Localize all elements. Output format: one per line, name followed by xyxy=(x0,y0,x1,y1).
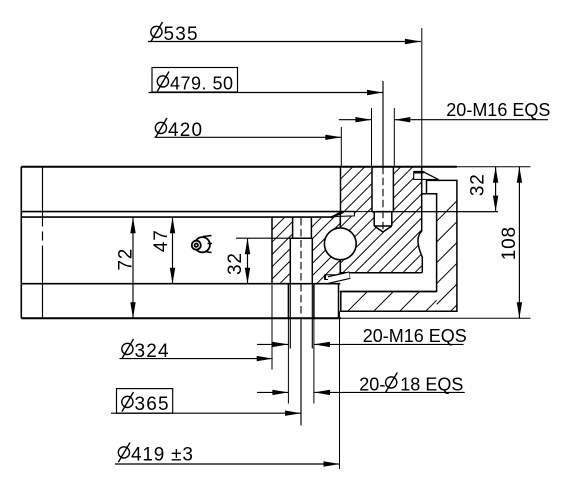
svg-text:479. 50: 479. 50 xyxy=(170,74,234,94)
ball xyxy=(324,228,356,260)
dimension 20-M16 EQS bottom xyxy=(257,326,467,347)
seal groove top right (white cut) xyxy=(414,168,424,180)
svg-text:32: 32 xyxy=(468,173,489,196)
extension lines right xyxy=(341,167,531,318)
outer support ring outline xyxy=(341,180,457,311)
svg-text:535: 535 xyxy=(164,24,199,45)
dimension Ø365 boxed xyxy=(111,389,301,416)
upper mounting plate outline xyxy=(21,167,457,318)
hatch: support column xyxy=(437,201,457,311)
hatch: support flange xyxy=(341,292,437,312)
extension lines top xyxy=(341,28,422,167)
support step line extension xyxy=(422,193,427,195)
centerline of outer ring bolt hole xyxy=(382,81,384,167)
svg-text:47: 47 xyxy=(151,229,172,252)
seal top left xyxy=(331,212,354,218)
centerline of inner ring bolt hole xyxy=(300,218,302,318)
break-out wave pocket on outer ring OD xyxy=(418,231,423,257)
lower plate bolt hole Ø18 xyxy=(288,284,338,349)
svg-text:32: 32 xyxy=(225,252,246,275)
dimension Ø479.50 boxed xyxy=(149,68,384,96)
raceway joint line at ball xyxy=(339,212,341,273)
thread step line inner ring hole xyxy=(290,237,312,239)
dimension Ø324 xyxy=(119,339,272,362)
svg-text:20-M16 EQS: 20-M16 EQS xyxy=(446,100,550,120)
outer ring OD line over seal xyxy=(421,167,423,180)
svg-text:72: 72 xyxy=(116,248,137,271)
dimension 20-Ø18 EQS xyxy=(257,373,465,396)
dimension 32 right xyxy=(468,167,499,212)
svg-text:365: 365 xyxy=(135,394,170,415)
inner ring outline xyxy=(272,217,312,283)
outer ring outline xyxy=(340,167,437,292)
bearing axis centerline xyxy=(42,167,44,227)
dimension 32 left xyxy=(225,238,250,284)
dimension 108 right xyxy=(499,167,522,318)
svg-text:108: 108 xyxy=(499,226,520,260)
dimension Ø535 xyxy=(148,22,421,45)
svg-text:324: 324 xyxy=(135,341,170,362)
svg-text:20-M16 EQS: 20-M16 EQS xyxy=(363,326,467,346)
dimension 20-M16 EQS top xyxy=(339,100,551,122)
dimension 72 xyxy=(116,217,137,318)
svg-text:18 EQS: 18 EQS xyxy=(400,375,463,395)
plug position marker glyph xyxy=(192,236,212,253)
extension lines bottom xyxy=(272,284,340,469)
seal top right xyxy=(414,172,439,180)
seal bottom left xyxy=(325,272,350,279)
hatch: inner ring xyxy=(272,217,340,283)
hatch: outer ring xyxy=(340,167,421,273)
dimension Ø420 xyxy=(155,118,342,141)
dimension Ø419 ±3 xyxy=(115,443,340,467)
svg-text:419 ±3: 419 ±3 xyxy=(131,445,194,466)
dimension 47 xyxy=(151,217,175,284)
svg-text:420: 420 xyxy=(168,120,203,141)
svg-text:20-: 20- xyxy=(359,375,385,395)
bolt hole M16 inner ring (white cut) xyxy=(293,217,312,238)
bolt hole M16 outer ring (white cut) xyxy=(372,167,393,212)
